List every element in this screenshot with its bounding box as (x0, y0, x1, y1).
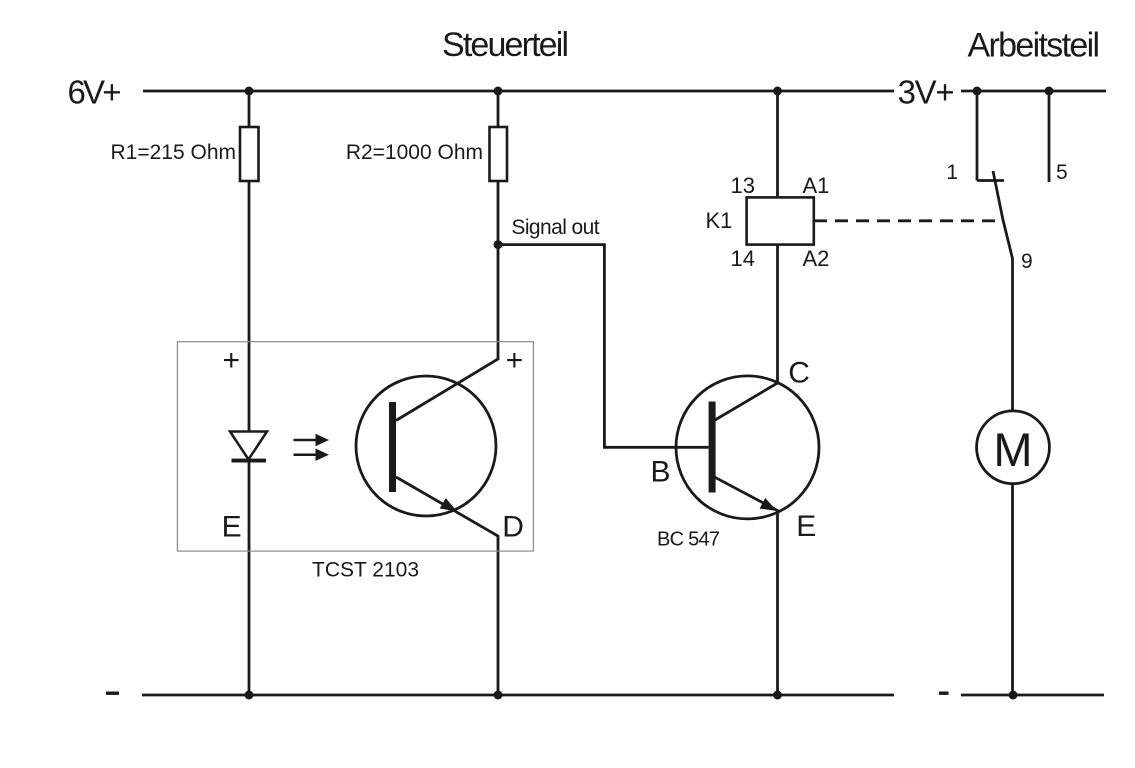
svg-text:Arbeitsteil: Arbeitsteil (968, 27, 1101, 65)
svg-text:C: C (788, 356, 810, 389)
svg-text:Steuerteil: Steuerteil (442, 26, 569, 64)
svg-text:Signal out: Signal out (511, 216, 599, 239)
svg-text:13: 13 (731, 173, 755, 198)
svg-text:9: 9 (1021, 250, 1033, 273)
svg-text:E: E (796, 510, 816, 543)
svg-text:B: B (651, 455, 671, 488)
svg-text:+: + (223, 344, 241, 377)
svg-text:K1: K1 (706, 208, 733, 233)
svg-text:6V+: 6V+ (68, 73, 122, 110)
svg-text:A1: A1 (803, 173, 830, 198)
svg-text:D: D (502, 511, 524, 544)
svg-text:BC 547: BC 547 (657, 528, 720, 550)
svg-text:M: M (993, 423, 1032, 476)
svg-text:5: 5 (1056, 161, 1068, 184)
svg-text:14: 14 (731, 246, 755, 271)
svg-text:3V+: 3V+ (898, 73, 955, 110)
svg-text:R2=1000 Ohm: R2=1000 Ohm (346, 141, 483, 164)
svg-text:R1=215 Ohm: R1=215 Ohm (111, 141, 237, 164)
svg-text:E: E (222, 510, 242, 543)
svg-text:+: + (506, 344, 524, 377)
svg-text:1: 1 (946, 161, 958, 184)
svg-text:TCST 2103: TCST 2103 (312, 559, 419, 582)
svg-text:A2: A2 (803, 246, 830, 271)
